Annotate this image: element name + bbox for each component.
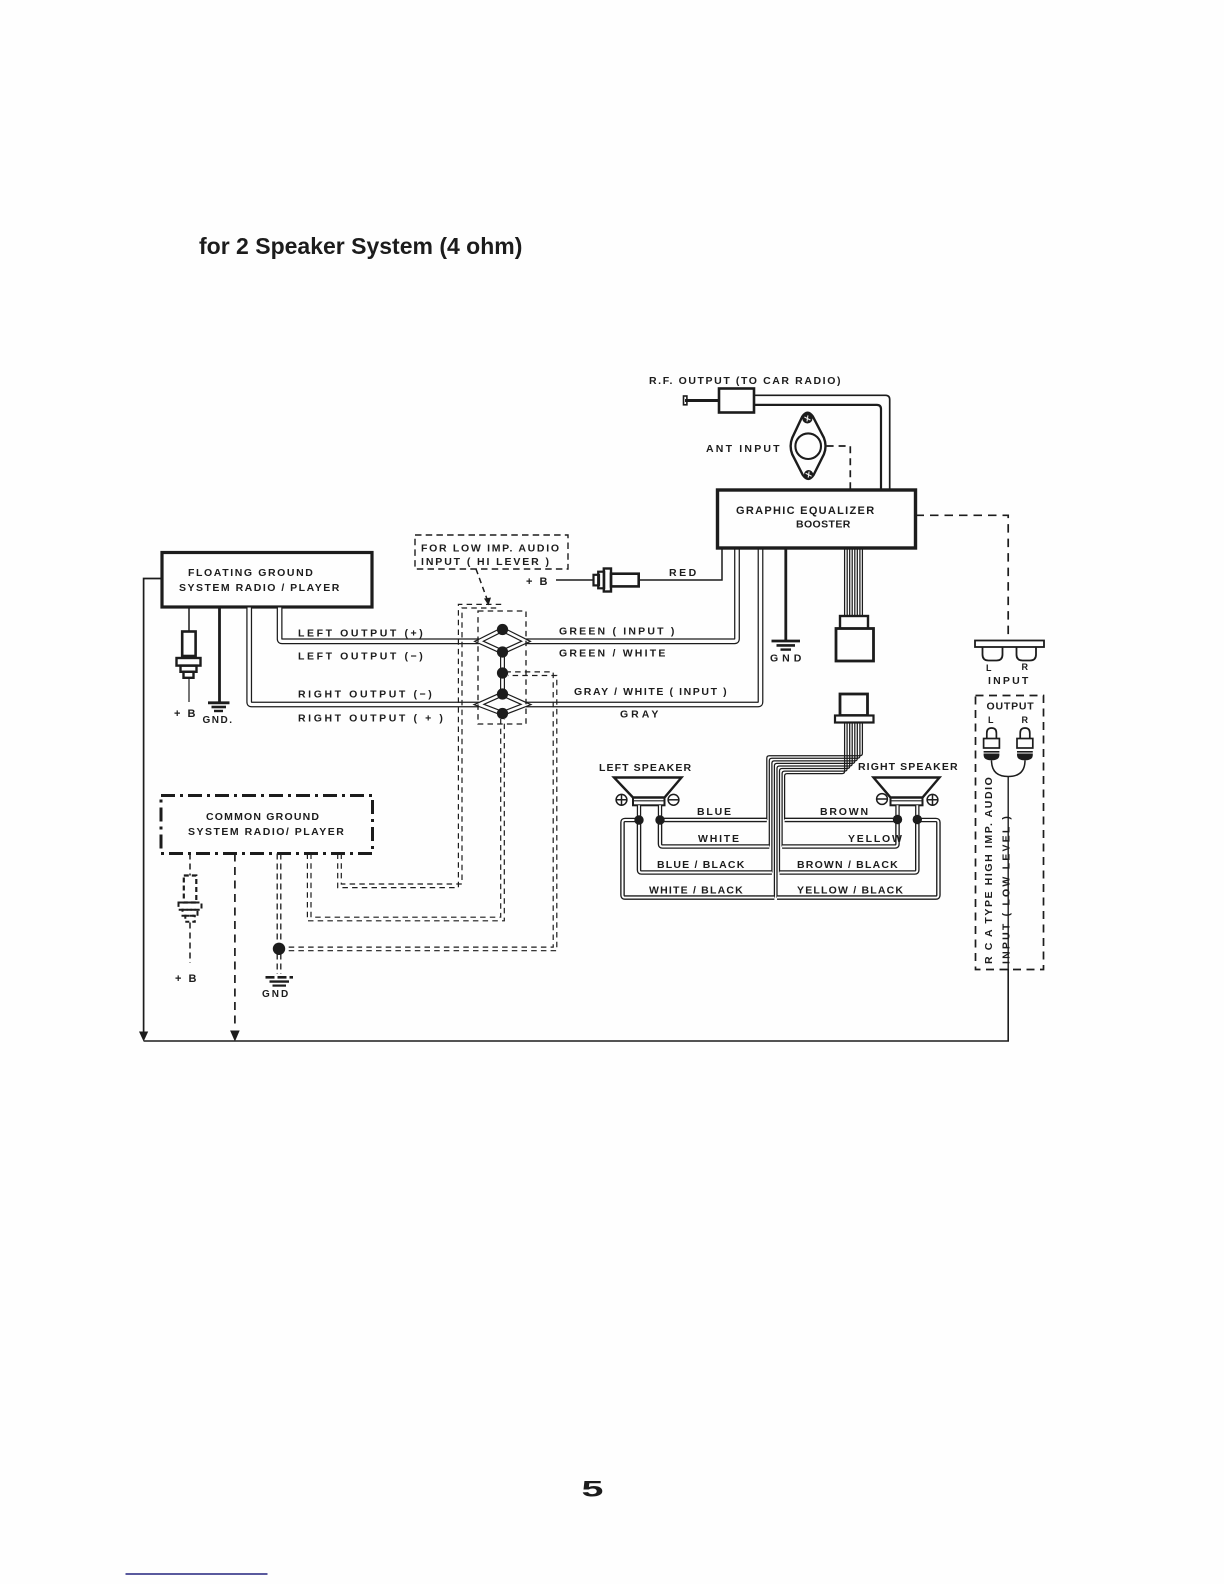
node bullet dot L- xyxy=(497,646,508,657)
svg-text:5: 5 xyxy=(582,1476,604,1501)
svg-text:R: R xyxy=(1022,715,1029,725)
svg-text:FLOATING GROUND: FLOATING GROUND xyxy=(188,567,314,579)
svg-text:YELLOW / BLACK: YELLOW / BLACK xyxy=(797,885,904,897)
cable gray pair to booster xyxy=(526,548,761,705)
terminal plus right speaker xyxy=(927,794,938,805)
svg-text:INPUT: INPUT xyxy=(988,675,1031,687)
ground symbol of floating box xyxy=(208,608,230,712)
svg-text:OUTPUT: OUTPUT xyxy=(987,701,1035,713)
fuse +B inline on red wire xyxy=(556,569,639,592)
wire yellow xyxy=(782,820,897,847)
svg-text:GREEN / WHITE: GREEN / WHITE xyxy=(559,648,668,660)
svg-text:GRAPHIC EQUALIZER: GRAPHIC EQUALIZER xyxy=(736,505,875,517)
svg-text:SYSTEM RADIO/ PLAYER: SYSTEM RADIO/ PLAYER xyxy=(188,826,345,838)
wire left speaker terminal leads xyxy=(639,805,660,820)
svg-text:RIGHT SPEAKER: RIGHT SPEAKER xyxy=(858,761,959,773)
cable left output pair from floating box xyxy=(280,608,479,642)
svg-text:FOR LOW IMP. AUDIO: FOR LOW IMP. AUDIO xyxy=(421,543,561,555)
svg-text:R.F. OUTPUT (TO CAR RADIO): R.F. OUTPUT (TO CAR RADIO) xyxy=(649,375,842,387)
wire bundle connector down and bend to speakers (8 conductors) xyxy=(767,723,863,898)
wire chassis left from floating box xyxy=(144,579,162,1037)
wire blue/black xyxy=(639,820,772,873)
svg-text:GRAY: GRAY xyxy=(620,709,661,721)
node terminal dot left speaker plus xyxy=(634,815,643,824)
svg-text:WHITE / BLACK: WHITE / BLACK xyxy=(649,885,744,897)
terminal plus left speaker xyxy=(616,794,627,805)
wire dashed shield pair C (gnd junction to center dot) xyxy=(279,672,557,951)
svg-text:RIGHT OUTPUT (−): RIGHT OUTPUT (−) xyxy=(298,689,434,701)
rca plug L xyxy=(984,728,1000,760)
svg-text:LEFT OUTPUT (+): LEFT OUTPUT (+) xyxy=(298,628,425,640)
node arrow at bottom of left wire xyxy=(139,1032,148,1042)
bullet connector diamond right channel xyxy=(479,694,526,714)
floating ground system radio/player box xyxy=(162,553,372,608)
svg-text:+ B: + B xyxy=(526,576,549,588)
wire rca pigtail arc xyxy=(992,760,1026,776)
rca plug R xyxy=(1017,728,1033,760)
common ground system radio/player box xyxy=(161,796,373,854)
svg-text:BROWN / BLACK: BROWN / BLACK xyxy=(797,859,899,871)
node bullet dot R- xyxy=(497,688,508,699)
screw top of ant connector xyxy=(803,414,812,423)
svg-text:LEFT SPEAKER: LEFT SPEAKER xyxy=(599,762,692,774)
connector male half xyxy=(836,616,874,661)
dashed enclosure around bullet connectors xyxy=(478,611,526,724)
svg-text:LEFT OUTPUT (−): LEFT OUTPUT (−) xyxy=(298,651,425,663)
graphic equalizer booster box xyxy=(718,490,916,548)
svg-text:BLUE: BLUE xyxy=(697,806,733,818)
socket R of input bar xyxy=(1017,647,1037,661)
terminal minus right speaker xyxy=(877,794,888,805)
wire brown xyxy=(785,818,898,823)
svg-text:INPUT ( HI LEVER ): INPUT ( HI LEVER ) xyxy=(421,556,551,568)
svg-text:BROWN: BROWN xyxy=(820,806,870,818)
left speaker symbol xyxy=(614,778,682,806)
cable right output pair from floating box xyxy=(249,608,479,705)
node terminal dot right speaker minus xyxy=(893,815,902,824)
rca dashed enclosure box xyxy=(976,696,1044,970)
wire right speaker terminal leads xyxy=(898,805,918,819)
wire white xyxy=(660,820,769,847)
svg-text:ANT INPUT: ANT INPUT xyxy=(706,443,782,455)
screw bottom of ant connector xyxy=(804,470,813,479)
node bullet dot L+ xyxy=(497,624,508,635)
wire dashed shield pair A (common box to connector top) xyxy=(338,604,504,887)
wire brown/black xyxy=(780,820,918,873)
socket L of input bar xyxy=(983,647,1003,661)
svg-text:GND.: GND. xyxy=(203,715,234,726)
wire dashed gnd pair below common box xyxy=(276,854,278,975)
wire blue xyxy=(660,818,767,823)
ground symbol of booster xyxy=(772,548,801,650)
svg-text:BOOSTER: BOOSTER xyxy=(796,519,851,531)
svg-text:GND: GND xyxy=(262,989,290,1000)
svg-text:L: L xyxy=(988,715,994,725)
svg-text:GND: GND xyxy=(770,653,805,665)
cable green pair to booster xyxy=(526,548,737,641)
wire rca stem down xyxy=(1007,777,1009,1042)
wire yellow/black xyxy=(777,820,938,898)
wire dashed ant connector to booster xyxy=(827,446,851,490)
node junction dot common gnd xyxy=(273,943,285,955)
svg-text:GREEN ( INPUT ): GREEN ( INPUT ) xyxy=(559,626,677,638)
svg-text:R C A TYPE HIGH IMP. AUDIO: R C A TYPE HIGH IMP. AUDIO xyxy=(983,776,995,964)
svg-text:R: R xyxy=(1022,662,1029,672)
node terminal dot right speaker plus xyxy=(913,815,922,824)
svg-text:+ B: + B xyxy=(175,973,198,985)
wire red from fuse to booster xyxy=(639,548,722,580)
node arrow at bottom of dashed wire xyxy=(230,1031,240,1042)
antenna plug r.f. output xyxy=(684,389,755,413)
wire column between connectors xyxy=(500,652,505,694)
ground symbol of common box xyxy=(266,977,294,985)
svg-text:YELLOW: YELLOW xyxy=(848,833,904,845)
svg-text:SYSTEM RADIO / PLAYER: SYSTEM RADIO / PLAYER xyxy=(179,582,341,594)
connector female half xyxy=(835,694,874,723)
bullet connector diamond left channel xyxy=(479,630,526,653)
svg-text:+ B: + B xyxy=(174,708,197,720)
antenna input connector flange xyxy=(791,413,826,479)
right speaker symbol xyxy=(874,778,940,806)
footer rule (navy) xyxy=(126,1573,268,1575)
svg-text:WHITE: WHITE xyxy=(698,833,741,845)
wire dashed common box to bottom rail xyxy=(234,854,236,1030)
svg-text:RIGHT OUTPUT ( + ): RIGHT OUTPUT ( + ) xyxy=(298,713,445,725)
wire bottom rail xyxy=(144,969,1009,1041)
terminal minus left speaker xyxy=(668,794,679,805)
wire r.f. coax double line to booster xyxy=(754,395,890,490)
svg-text:COMMON GROUND: COMMON GROUND xyxy=(206,811,320,823)
node bullet dot center shield xyxy=(497,667,508,678)
wire dashed booster to input bar xyxy=(916,515,1009,639)
fuse +B of floating box xyxy=(177,608,201,703)
svg-text:for 2 Speaker System (4 ohm): for 2 Speaker System (4 ohm) xyxy=(199,233,522,259)
wire dashed shield pair B (common box to connector bottom) xyxy=(307,719,504,921)
wire bundle booster to connector (8 conductors) xyxy=(845,548,863,616)
node terminal dot left speaker minus xyxy=(655,815,664,824)
svg-text:RED: RED xyxy=(669,567,699,579)
svg-text:BLUE / BLACK: BLUE / BLACK xyxy=(657,859,745,871)
svg-text:GRAY / WHITE ( INPUT ): GRAY / WHITE ( INPUT ) xyxy=(574,686,728,698)
wire white/black xyxy=(623,820,775,898)
svg-text:L: L xyxy=(986,663,992,673)
for low imp. audio input dashed note box xyxy=(415,535,568,569)
fuse +B of common box (dashed) xyxy=(179,854,202,964)
svg-text:INPUT ( LOW LEVEL ): INPUT ( LOW LEVEL ) xyxy=(1001,814,1013,964)
node bullet dot R+ xyxy=(497,708,508,719)
input bar connector xyxy=(975,641,1044,648)
wire dashed pointer arrow from note box xyxy=(476,569,487,599)
